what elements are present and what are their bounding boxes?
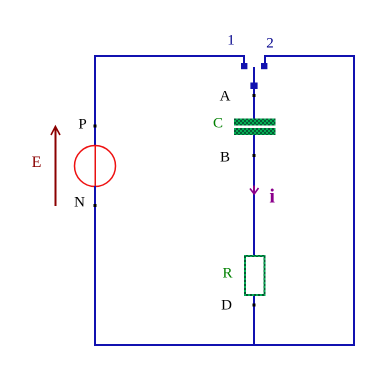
svg-text:1: 1: [227, 33, 235, 49]
switch terminal 1 contact: [241, 63, 247, 69]
wire top-right horizontal: [265, 55, 355, 57]
svg-text:E: E: [32, 154, 42, 171]
svg-text:R: R: [222, 266, 232, 282]
wire left vertical lower: [94, 186, 96, 346]
node D: [253, 304, 256, 307]
node A: [253, 94, 256, 97]
svg-text:i: i: [269, 186, 275, 208]
wire middle branch lower (resistor to bottom): [253, 296, 255, 345]
wire switch pole blade: [253, 67, 255, 83]
source E internal line: [94, 146, 96, 186]
svg-text:2: 2: [266, 36, 274, 52]
node B: [253, 154, 256, 157]
wire bottom horizontal: [94, 344, 355, 346]
wire switch terminal 1 drop: [243, 55, 245, 63]
source E circle: [75, 146, 116, 187]
capacitor C plate 2: [234, 128, 276, 135]
wire switch terminal 2 drop: [264, 55, 266, 63]
wire right vertical: [353, 55, 355, 346]
E arrow head: [51, 127, 60, 136]
svg-text:B: B: [220, 150, 230, 166]
svg-text:A: A: [220, 89, 231, 105]
switch terminal 2 contact: [261, 63, 267, 69]
svg-text:D: D: [221, 298, 232, 314]
current arrow i head: [250, 188, 259, 194]
current arrow i shaft: [253, 186, 255, 194]
wire top-left horizontal: [94, 55, 245, 57]
svg-text:P: P: [78, 117, 86, 133]
switch pole contact: [250, 83, 257, 90]
svg-text:N: N: [74, 195, 85, 211]
wire left vertical upper: [94, 55, 96, 146]
node N: [94, 204, 97, 207]
wire middle branch (capacitor to resistor): [253, 135, 255, 255]
wire middle branch upper (pole to capacitor): [253, 89, 255, 119]
capacitor C plate 1: [234, 119, 276, 126]
resistor R body: [245, 256, 265, 295]
svg-text:C: C: [213, 116, 223, 132]
node P: [94, 125, 97, 128]
E arrow shaft: [55, 128, 57, 206]
